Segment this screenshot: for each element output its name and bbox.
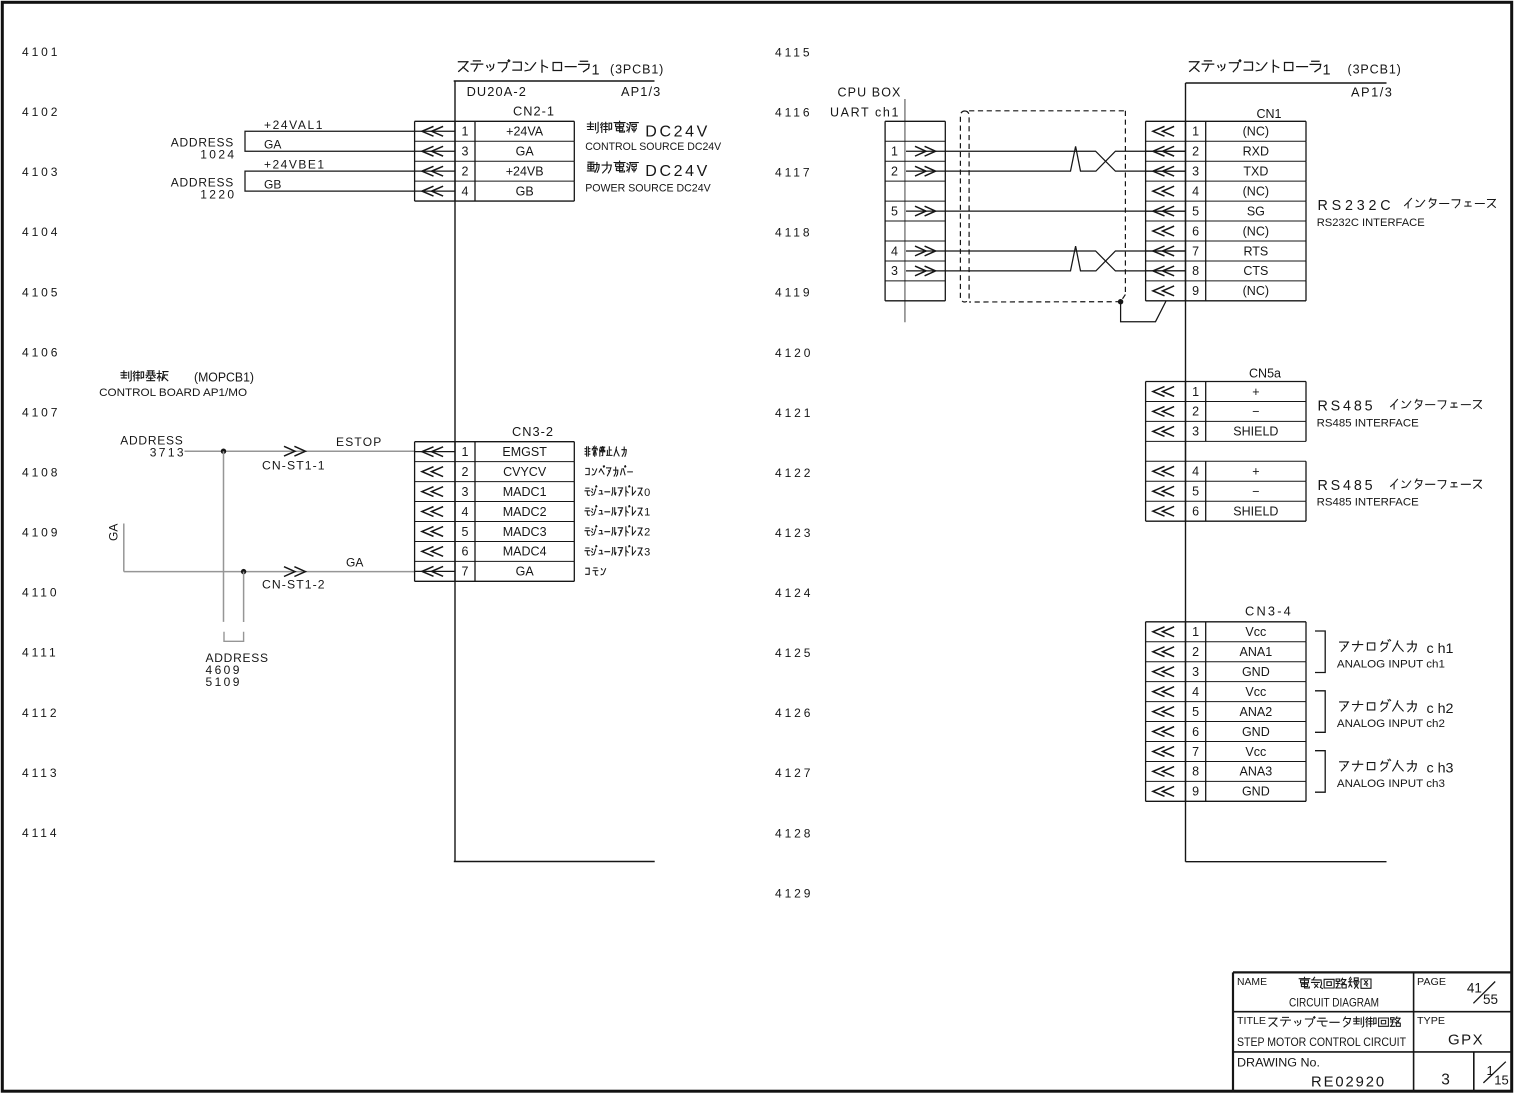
- svg-text:2: 2: [462, 164, 469, 178]
- svg-text:RXD: RXD: [1243, 145, 1269, 159]
- svg-text:GA: GA: [264, 138, 281, 152]
- svg-text:5: 5: [1192, 485, 1199, 499]
- svg-text:2: 2: [1192, 645, 1199, 659]
- svg-text:1: 1: [462, 445, 469, 459]
- svg-text:4127: 4127: [775, 766, 813, 780]
- svg-text:2: 2: [462, 465, 469, 479]
- svg-text:c h2: c h2: [1427, 701, 1454, 716]
- svg-text:RS232C: RS232C: [1318, 198, 1395, 214]
- svg-text:3: 3: [1192, 164, 1199, 178]
- svg-text:(NC): (NC): [1243, 224, 1269, 238]
- svg-text:1220: 1220: [200, 187, 236, 201]
- svg-text:CN-ST1-1: CN-ST1-1: [262, 458, 326, 472]
- svg-text:3: 3: [1441, 1072, 1450, 1089]
- svg-text:STEP MOTOR CONTROL CIRCUIT: STEP MOTOR CONTROL CIRCUIT: [1237, 1035, 1406, 1049]
- svg-text:c h1: c h1: [1427, 641, 1454, 656]
- svg-text:8: 8: [1192, 765, 1199, 779]
- svg-text:4129: 4129: [775, 886, 813, 900]
- svg-text:GND: GND: [1242, 785, 1270, 799]
- svg-text:+24VA: +24VA: [506, 125, 544, 139]
- svg-text:3: 3: [462, 485, 469, 499]
- svg-text:4128: 4128: [775, 826, 813, 840]
- svg-text:GB: GB: [516, 184, 534, 198]
- svg-text:GA: GA: [516, 565, 535, 579]
- svg-text:ESTOP: ESTOP: [336, 435, 382, 449]
- svg-text:PAGE: PAGE: [1417, 976, 1446, 988]
- svg-text:4106: 4106: [22, 345, 60, 359]
- svg-text:4103: 4103: [22, 165, 60, 179]
- svg-text:4120: 4120: [775, 346, 813, 360]
- svg-text:−: −: [1252, 405, 1259, 419]
- svg-text:6: 6: [462, 545, 469, 559]
- svg-text:7: 7: [1192, 745, 1199, 759]
- svg-text:ANALOG INPUT ch2: ANALOG INPUT ch2: [1337, 718, 1445, 730]
- svg-text:1: 1: [1323, 63, 1331, 79]
- svg-text:TYPE: TYPE: [1417, 1015, 1445, 1027]
- svg-text:3: 3: [644, 547, 650, 559]
- svg-text:CVYCV: CVYCV: [503, 465, 547, 479]
- svg-text:GB: GB: [264, 178, 281, 192]
- svg-text:+24VAL1: +24VAL1: [264, 118, 324, 132]
- svg-text:ANALOG INPUT ch1: ANALOG INPUT ch1: [1337, 658, 1445, 670]
- svg-text:RS485: RS485: [1318, 478, 1376, 494]
- svg-text:4: 4: [1192, 685, 1199, 699]
- svg-text:4115: 4115: [775, 45, 812, 59]
- svg-text:ANA2: ANA2: [1240, 705, 1273, 719]
- svg-text:RS232C INTERFACE: RS232C INTERFACE: [1317, 217, 1425, 229]
- svg-text:4119: 4119: [775, 286, 812, 300]
- svg-text:4125: 4125: [775, 646, 813, 660]
- svg-text:4117: 4117: [775, 166, 812, 180]
- svg-text:RS485 INTERFACE: RS485 INTERFACE: [1317, 417, 1419, 429]
- svg-text:CN3-2: CN3-2: [512, 424, 554, 439]
- svg-text:GA: GA: [346, 556, 363, 570]
- svg-text:2: 2: [1192, 405, 1199, 419]
- svg-text:4126: 4126: [775, 706, 813, 720]
- svg-text:4: 4: [462, 505, 469, 519]
- svg-text:CONTROL SOURCE DC24V: CONTROL SOURCE DC24V: [585, 141, 721, 153]
- svg-text:SHIELD: SHIELD: [1233, 425, 1278, 439]
- svg-text:CIRCUIT DIAGRAM: CIRCUIT DIAGRAM: [1289, 996, 1379, 1010]
- svg-text:TITLE: TITLE: [1237, 1015, 1266, 1027]
- svg-text:SHIELD: SHIELD: [1233, 504, 1278, 518]
- svg-text:1: 1: [1192, 125, 1199, 139]
- svg-text:6: 6: [1192, 504, 1199, 518]
- svg-text:7: 7: [1192, 244, 1199, 258]
- svg-text:GND: GND: [1242, 725, 1270, 739]
- svg-text:CONTROL BOARD AP1/MO: CONTROL BOARD AP1/MO: [99, 387, 247, 399]
- svg-text:CN2-1: CN2-1: [513, 104, 555, 119]
- svg-text:RS485: RS485: [1318, 399, 1376, 415]
- svg-text:UART ch1: UART ch1: [830, 105, 900, 119]
- svg-text:4112: 4112: [22, 706, 59, 720]
- svg-text:1: 1: [592, 63, 600, 79]
- svg-text:8: 8: [1192, 264, 1199, 278]
- svg-text:GA: GA: [107, 524, 121, 541]
- svg-text:3: 3: [891, 264, 898, 278]
- svg-text:MADC2: MADC2: [503, 505, 547, 519]
- svg-text:1: 1: [462, 125, 469, 139]
- svg-text:CN5a: CN5a: [1249, 366, 1281, 380]
- svg-text:+: +: [1252, 385, 1259, 399]
- svg-text:3: 3: [1192, 665, 1199, 679]
- svg-text:2: 2: [891, 164, 898, 178]
- svg-text:CN3-4: CN3-4: [1245, 603, 1293, 618]
- svg-text:DC24V: DC24V: [645, 163, 710, 180]
- svg-text:CN1: CN1: [1256, 107, 1281, 121]
- svg-text:(NC): (NC): [1243, 284, 1269, 298]
- svg-text:4109: 4109: [22, 526, 60, 540]
- svg-text:+24VBE1: +24VBE1: [264, 158, 326, 172]
- svg-text:GA: GA: [516, 145, 535, 159]
- svg-text:NAME: NAME: [1237, 976, 1267, 988]
- svg-text:4: 4: [462, 184, 469, 198]
- svg-text:Vcc: Vcc: [1245, 685, 1266, 699]
- svg-text:c h3: c h3: [1427, 761, 1454, 776]
- svg-text:GPX: GPX: [1448, 1032, 1484, 1049]
- svg-text:(3PCB1): (3PCB1): [1348, 63, 1402, 77]
- svg-text:AP1/3: AP1/3: [621, 84, 661, 99]
- svg-text:4104: 4104: [22, 225, 60, 239]
- svg-text:5: 5: [891, 204, 898, 218]
- svg-text:4: 4: [891, 244, 898, 258]
- svg-text:2: 2: [644, 527, 650, 539]
- svg-text:4122: 4122: [775, 466, 813, 480]
- svg-text:ANA1: ANA1: [1240, 645, 1273, 659]
- svg-text:4108: 4108: [22, 465, 60, 479]
- svg-text:6: 6: [1192, 224, 1199, 238]
- svg-text:9: 9: [1192, 785, 1199, 799]
- svg-text:0: 0: [644, 487, 650, 499]
- svg-text:(3PCB1): (3PCB1): [610, 63, 664, 77]
- svg-text:MADC1: MADC1: [503, 485, 547, 499]
- svg-text:4111: 4111: [22, 646, 59, 660]
- svg-text:4107: 4107: [22, 405, 60, 419]
- svg-text:CPU BOX: CPU BOX: [838, 86, 902, 100]
- svg-text:4114: 4114: [22, 826, 59, 840]
- svg-text:2: 2: [1192, 145, 1199, 159]
- svg-text:4118: 4118: [775, 226, 812, 240]
- svg-text:5: 5: [1192, 204, 1199, 218]
- svg-text:1: 1: [1192, 625, 1199, 639]
- svg-text:5: 5: [1192, 705, 1199, 719]
- svg-text:9: 9: [1192, 284, 1199, 298]
- svg-text:AP1/3: AP1/3: [1351, 84, 1393, 99]
- svg-text:DRAWING No.: DRAWING No.: [1237, 1058, 1320, 1070]
- svg-text:DU20A-2: DU20A-2: [467, 84, 527, 99]
- svg-text:Vcc: Vcc: [1245, 745, 1266, 759]
- svg-text:4123: 4123: [775, 526, 813, 540]
- svg-text:1: 1: [644, 507, 650, 519]
- svg-text:4: 4: [1192, 184, 1199, 198]
- svg-text:(MOPCB1): (MOPCB1): [194, 370, 254, 385]
- svg-text:5109: 5109: [206, 675, 242, 689]
- svg-text:55: 55: [1483, 992, 1498, 1007]
- svg-text:1024: 1024: [200, 148, 236, 162]
- svg-text:+24VB: +24VB: [506, 164, 544, 178]
- svg-text:CN-ST1-2: CN-ST1-2: [262, 577, 326, 591]
- svg-text:TXD: TXD: [1243, 164, 1268, 178]
- svg-text:ANA3: ANA3: [1240, 765, 1273, 779]
- svg-text:CTS: CTS: [1243, 264, 1268, 278]
- svg-text:1: 1: [891, 145, 898, 159]
- svg-text:15: 15: [1494, 1073, 1508, 1088]
- svg-text:4: 4: [1192, 465, 1199, 479]
- svg-text:4101: 4101: [22, 45, 60, 59]
- svg-text:Vcc: Vcc: [1245, 625, 1266, 639]
- svg-text:RE02920: RE02920: [1311, 1075, 1386, 1091]
- svg-text:SG: SG: [1247, 204, 1265, 218]
- svg-text:MADC4: MADC4: [503, 545, 547, 559]
- svg-text:4116: 4116: [775, 105, 812, 119]
- svg-text:5: 5: [462, 525, 469, 539]
- svg-text:7: 7: [462, 565, 469, 579]
- svg-text:POWER SOURCE DC24V: POWER SOURCE DC24V: [585, 182, 711, 194]
- svg-text:3713: 3713: [150, 445, 186, 459]
- svg-text:41: 41: [1467, 980, 1482, 995]
- svg-text:6: 6: [1192, 725, 1199, 739]
- svg-text:4105: 4105: [22, 285, 60, 299]
- svg-text:+: +: [1252, 465, 1259, 479]
- svg-text:MADC3: MADC3: [503, 525, 547, 539]
- svg-text:(NC): (NC): [1243, 125, 1269, 139]
- svg-text:4121: 4121: [775, 406, 813, 420]
- svg-text:GND: GND: [1242, 665, 1270, 679]
- svg-text:1: 1: [1192, 385, 1199, 399]
- svg-text:3: 3: [462, 145, 469, 159]
- svg-text:DC24V: DC24V: [645, 123, 710, 140]
- svg-text:4113: 4113: [22, 766, 59, 780]
- svg-text:3: 3: [1192, 425, 1199, 439]
- svg-text:ANALOG INPUT ch3: ANALOG INPUT ch3: [1337, 778, 1445, 790]
- svg-text:−: −: [1252, 485, 1259, 499]
- svg-text:RS485 INTERFACE: RS485 INTERFACE: [1317, 497, 1419, 509]
- svg-text:4124: 4124: [775, 586, 813, 600]
- svg-text:4102: 4102: [22, 105, 60, 119]
- svg-text:EMGST: EMGST: [502, 445, 547, 459]
- svg-text:4110: 4110: [22, 586, 59, 600]
- svg-text:(NC): (NC): [1243, 184, 1269, 198]
- svg-text:RTS: RTS: [1243, 244, 1268, 258]
